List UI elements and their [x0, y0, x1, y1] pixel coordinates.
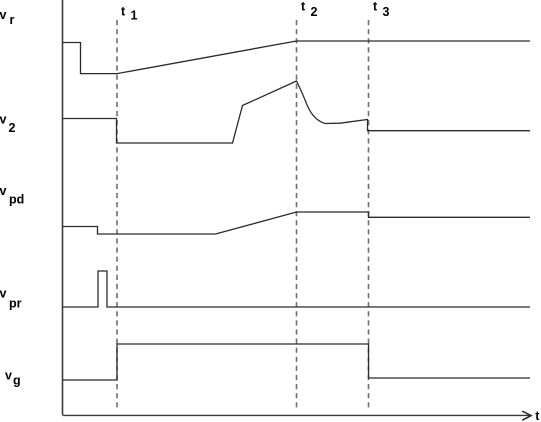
waveform v_2 — [63, 81, 531, 143]
svg-text:t: t — [373, 0, 378, 14]
dashed line t2 — [296, 20, 298, 410]
dashed line t3 — [368, 20, 370, 410]
svg-text:v: v — [5, 368, 12, 382]
svg-text:1: 1 — [131, 9, 138, 23]
svg-text:3: 3 — [383, 5, 390, 19]
waveform v_pd — [63, 212, 531, 234]
axis arrowhead — [522, 411, 531, 420]
svg-text:t: t — [121, 5, 126, 19]
waveform v_g — [63, 344, 531, 380]
axis horizontal — [63, 414, 530, 416]
waveform v_pr — [63, 271, 531, 307]
svg-text:pd: pd — [9, 193, 24, 207]
svg-text:v: v — [0, 287, 7, 301]
svg-text:v: v — [0, 112, 7, 126]
svg-text:g: g — [13, 374, 21, 388]
waveform v_r — [63, 41, 531, 74]
svg-text:r: r — [10, 13, 15, 27]
axis vertical — [62, 0, 64, 415]
svg-text:v: v — [0, 184, 7, 198]
svg-text:2: 2 — [311, 5, 318, 19]
svg-text:pr: pr — [9, 296, 22, 310]
svg-text:t: t — [535, 409, 540, 422]
svg-text:v: v — [0, 8, 7, 22]
svg-text:t: t — [301, 0, 306, 14]
svg-text:2: 2 — [9, 121, 16, 135]
dashed line t1 — [116, 20, 118, 410]
